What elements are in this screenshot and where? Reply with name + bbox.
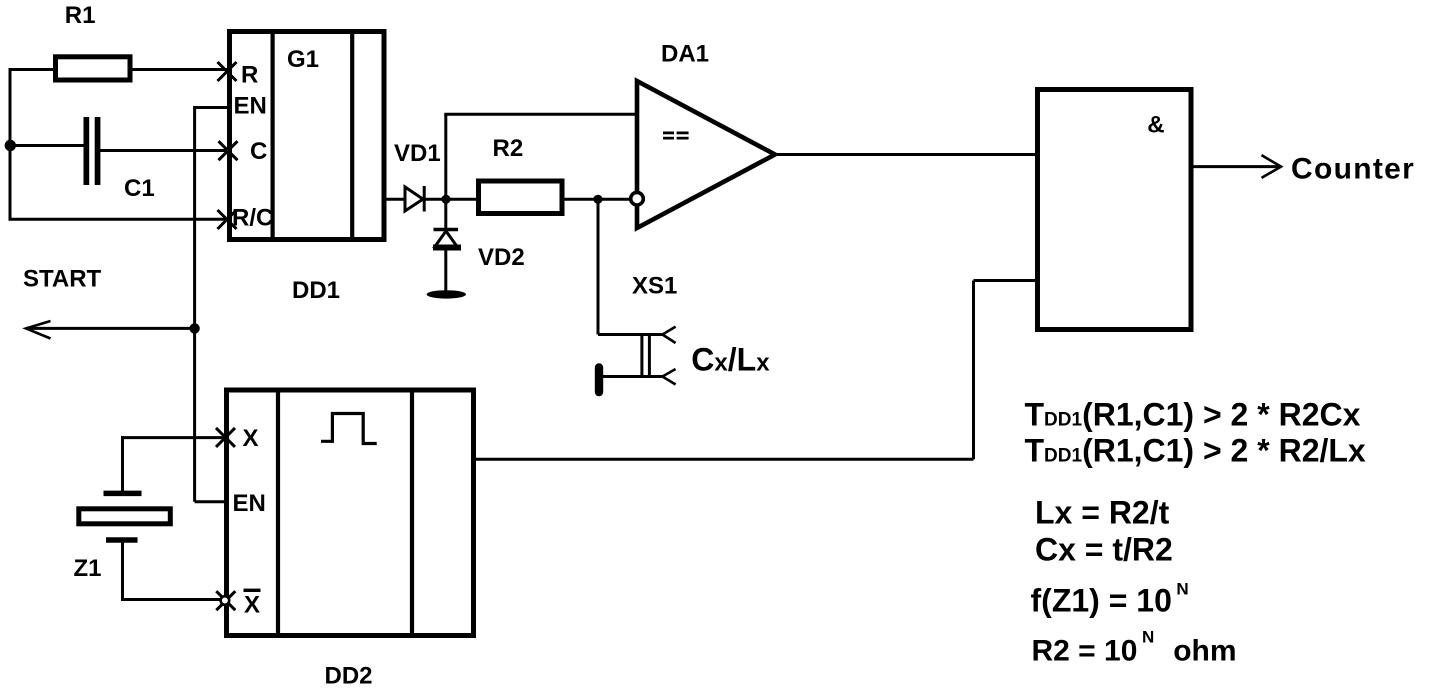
svg-text:DD1: DD1 — [292, 277, 340, 304]
svg-text:XS1: XS1 — [632, 273, 677, 300]
svg-text:VD2: VD2 — [478, 244, 525, 271]
svg-text:R/C: R/C — [232, 205, 273, 232]
svg-text:R1: R1 — [65, 2, 96, 29]
svg-text:EN: EN — [234, 93, 267, 120]
svg-text:X: X — [243, 425, 259, 452]
svg-text:DD2: DD2 — [325, 663, 373, 690]
svg-text:Cx = t/R2: Cx = t/R2 — [1035, 532, 1173, 568]
svg-text:C1: C1 — [124, 175, 155, 202]
svg-text:START: START — [23, 266, 102, 293]
svg-text:R2: R2 — [493, 135, 524, 162]
svg-text:C: C — [250, 138, 267, 165]
svg-text:DA1: DA1 — [661, 41, 709, 68]
svg-text:Lx = R2/t: Lx = R2/t — [1035, 494, 1170, 530]
svg-text:Z1: Z1 — [74, 555, 102, 582]
svg-text:EN: EN — [233, 490, 266, 517]
svg-text:G1: G1 — [287, 46, 319, 73]
svg-text:R: R — [241, 62, 258, 89]
svg-text:VD1: VD1 — [394, 140, 441, 167]
svg-text:Counter: Counter — [1291, 152, 1415, 185]
svg-text:f(Z1) = 10N: f(Z1) = 10N — [1031, 579, 1189, 618]
svg-text:X: X — [244, 591, 260, 618]
svg-text:&: & — [1147, 112, 1164, 139]
